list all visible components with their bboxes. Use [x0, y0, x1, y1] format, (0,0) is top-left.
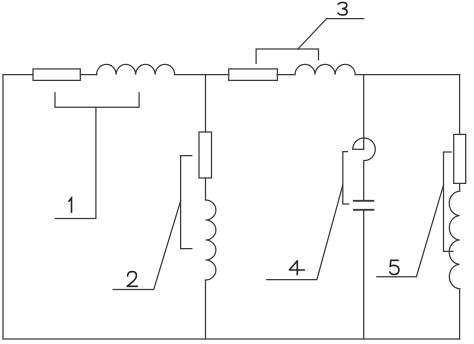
wire: right branch between resistor and inductor	[459, 183, 461, 191]
leader line for label 2	[113, 201, 181, 290]
wire: middle branch lower	[205, 280, 207, 339]
label 4	[289, 261, 304, 275]
discharge-tube loop symbol (part 4): 270deg arc	[353, 138, 376, 161]
capacitor plate top (part 4)	[354, 200, 374, 202]
inductor (right branch, 4 humps left)	[449, 191, 459, 289]
wire: bottom border	[3, 338, 460, 340]
label 1	[69, 198, 72, 212]
leader line for label 3	[298, 19, 364, 49]
label 3	[338, 2, 347, 15]
wire: resistor to inductor (top-right)	[277, 74, 295, 76]
resistor (part 1, top-left)	[33, 69, 80, 81]
bracket for label 2	[181, 156, 192, 249]
wire: top middle segment	[175, 74, 229, 76]
wire: top-left feed	[3, 74, 33, 76]
inductor (part 1, top-left, 4 humps)	[97, 64, 175, 74]
inductor (part 3 group, 3 humps)	[295, 64, 355, 74]
leader line for label 5	[377, 185, 444, 277]
brace under part 1	[55, 93, 139, 107]
wire: branch 4 lower	[363, 210, 365, 339]
label 5	[390, 260, 399, 274]
resistor (right branch)	[454, 134, 466, 183]
wire: right branch lower	[459, 289, 461, 339]
wire: middle branch between resistor and inductor	[205, 178, 207, 200]
wire: top-right segment to right border	[355, 74, 459, 76]
brace over part 3	[256, 49, 318, 63]
inductor (middle branch, 4 humps right)	[206, 200, 216, 280]
wire: right branch upper	[459, 75, 461, 135]
wire: middle branch upper	[205, 75, 207, 132]
bracket for label 4	[343, 152, 349, 204]
wire: branch 4 middle	[363, 161, 365, 201]
resistor (middle branch)	[199, 132, 212, 178]
label 2	[127, 272, 137, 287]
bracket for label 5	[444, 152, 453, 251]
discharge-tube loop symbol (part 4): center tick	[353, 148, 364, 150]
wire: branch 4 upper	[363, 75, 365, 150]
wire: resistor to inductor (top-left)	[80, 74, 96, 76]
capacitor plate bottom (part 4)	[354, 209, 374, 211]
resistor (part 3 group, top-right)	[229, 69, 278, 81]
leader line for label 4	[267, 185, 343, 280]
leader line for label 1	[55, 107, 96, 218]
wire: left border	[2, 75, 4, 339]
